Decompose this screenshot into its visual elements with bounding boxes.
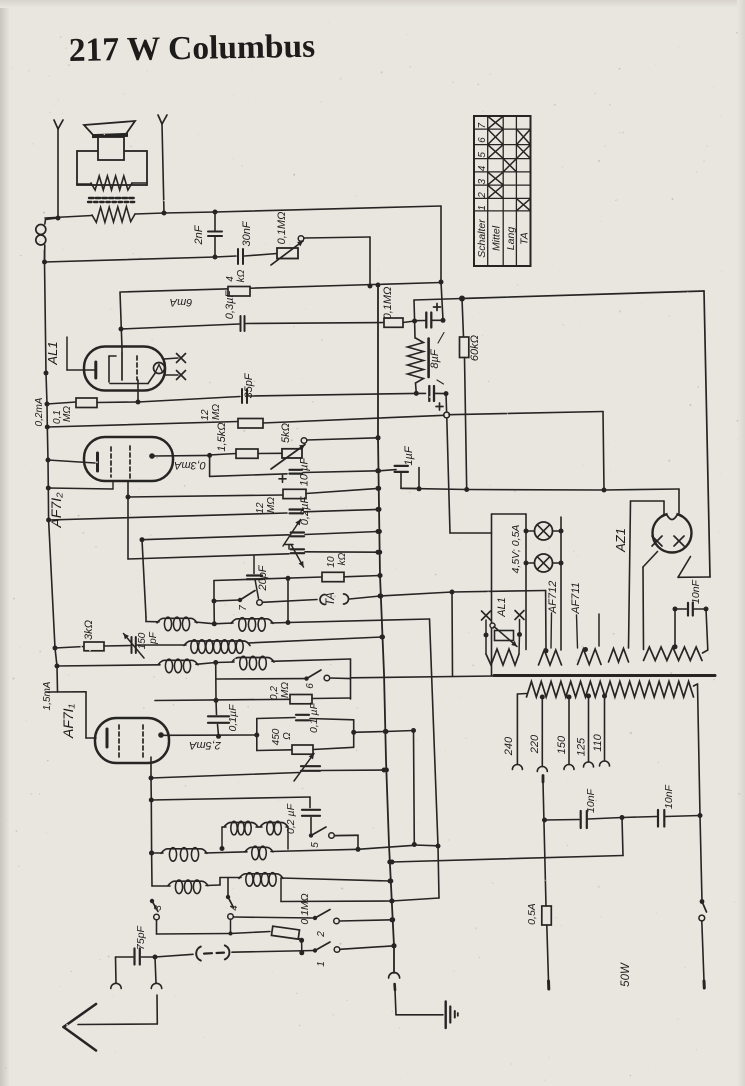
AF7I1 grid1 (dashed) [118,725,120,757]
10k value label [326,552,348,567]
wire W5 [128,495,283,497]
wire heater row y490 [401,487,607,493]
svg-text:AL1: AL1 [45,341,60,365]
wire W2 12M line [47,422,238,428]
svg-text:10nF: 10nF [690,579,702,604]
speaker terminal right (fork) [158,115,167,216]
capacitor 0.2uF [290,507,381,513]
AL1 tube label [45,337,67,370]
ground wire [396,1014,443,1016]
0.1M decoupling label [382,287,394,320]
transformer core (dashed) [88,198,136,202]
svg-text:6: 6 [305,683,316,689]
0.3uF value label [224,290,236,320]
svg-text:4: 4 [477,165,488,171]
switch 5 [309,827,358,838]
svg-text:4: 4 [225,276,236,282]
svg-text:12: 12 [255,502,266,514]
150pF value label [137,631,159,649]
AL1 anode [121,347,123,381]
svg-text:MΩ: MΩ [266,497,277,513]
capacitor 0.1uF (grid) [208,716,229,739]
heater winding z5 [644,647,703,661]
svg-text:2nF: 2nF [193,224,205,245]
wire W7 [140,535,290,542]
wire W-666 [57,665,160,666]
svg-text:0,3µF: 0,3µF [224,290,236,320]
trimmer 150pF [124,634,187,659]
svg-text:8µF: 8µF [429,348,441,368]
svg-text:50W: 50W [620,962,632,987]
svg-text:125: 125 [576,737,588,756]
svg-text:1: 1 [316,961,327,967]
wire sw4 to sw2 [233,917,314,918]
AL1 heater rheostat [482,611,525,655]
wire row y850 [149,846,224,856]
switch 3 label [153,905,164,911]
tap 240 [503,694,522,770]
power rating label [620,962,632,987]
wire anode drop to W4 [209,455,211,476]
svg-text:0,1 µF: 0,1 µF [308,702,320,733]
AF7I1 cathode [106,729,109,747]
tap 125 [576,694,594,768]
AZ1 anode 2 [674,536,684,546]
AF7I1 tube label [60,703,76,739]
lamp left rail [524,514,529,650]
coil D [216,656,351,670]
AF7I1 anode [158,732,259,738]
antenna lead [78,995,157,1025]
svg-text:1,5mA: 1,5mA [42,681,53,710]
capacitor 30nF [238,249,277,264]
wire switch7 to TA [262,600,317,603]
AL1 heater leads [164,354,186,380]
svg-text:0,5A: 0,5A [526,903,538,925]
resistor 12M (AF7I2 grid) [283,486,381,499]
12M grid label [255,497,277,514]
svg-text:TA: TA [325,592,337,606]
svg-text:0,2: 0,2 [269,686,280,700]
svg-text:10: 10 [326,556,337,568]
0.1M AL1 label [52,406,73,424]
coil C [158,659,218,673]
svg-text:150: 150 [137,632,148,649]
heater winding AL1 section [486,649,519,665]
capacitor 0.3uF [241,316,385,331]
bleeder zigzag [408,321,424,393]
left supply rail [44,250,60,692]
svg-text:240: 240 [503,736,515,756]
AF7I1 grid2 (dashed) [142,725,144,757]
AZ1 filament lead left [629,501,665,648]
electrolytic 8uF (second) [429,386,448,401]
switch 2 [313,910,395,924]
svg-text:450: 450 [271,728,282,745]
speaker neck [98,137,124,160]
switch 4 label [229,905,240,911]
resistor 0.1M (antenna) [231,926,305,955]
2.5mA current label [189,739,222,751]
svg-text:7: 7 [238,605,249,611]
svg-text:0,1MΩ: 0,1MΩ [382,287,394,320]
wire W4 [210,474,287,477]
antenna jack right [151,957,161,989]
svg-text:AF7I₂: AF7I₂ [48,492,64,529]
wave-band switch table [474,116,531,266]
voice coil / secondary zigzag [45,207,164,223]
electrolytic 10uF [290,470,378,474]
AF7I2 anode [149,453,212,459]
svg-text:150: 150 [556,735,568,754]
TA label [325,592,337,606]
grid cap riser [214,663,219,715]
dial lamp 2 [526,554,561,572]
resistor 0.1M (AL1 grid) [76,397,240,408]
electrolytic 8uF long plate [427,339,430,378]
4k value label [225,269,247,282]
trimmer capacitor 1 [283,520,381,547]
wire anode row to bus [354,728,416,734]
wire W3 [210,454,236,456]
0.2uF switch5 label [285,803,297,834]
switch 6 [216,670,351,681]
wire W9 10k line [214,576,322,581]
switch 6 label [305,683,316,689]
switch 7 label [238,605,249,611]
5k value label [280,423,292,443]
AL1 heater circle [154,363,165,374]
coil A [146,617,214,631]
capacitor 10nF (mains right) [622,810,700,827]
svg-text:6mA: 6mA [170,296,193,308]
fuse 0.5A [542,906,552,989]
capacitor 1uF (bus) [375,466,421,491]
wire TA row to heater [380,590,546,650]
svg-text:MΩ: MΩ [62,406,73,422]
wire riser x414 [412,731,417,848]
wire to B+ node [414,296,465,322]
10nF (AZ1 filter) [673,603,709,653]
AL1 cathode [67,362,96,378]
switch5 drop [357,835,359,849]
field coil (zigzag in housing) [77,176,147,190]
switch 3 [150,899,231,934]
svg-text:TA: TA [518,232,530,245]
35pF value label [243,372,255,398]
svg-text:2: 2 [316,931,327,938]
coil H drop [280,878,282,902]
resistor 3k [55,642,130,651]
10nF mains left label [585,788,597,813]
resistor 4k [228,287,250,297]
svg-text:0,3mA: 0,3mA [174,459,206,471]
tube AZ1 envelope [653,508,692,552]
trimmer capacitor 3 [294,754,387,782]
wire W1 0.2mA line [47,402,76,404]
capacitor 10nF (mains left) [545,811,623,828]
potentiometer 0.1M (volume) [271,236,304,265]
transformer core bar [494,674,715,677]
wire B+ rail to rectifier [462,291,710,577]
heater winding z4 [609,649,629,663]
svg-text:pF: pF [148,631,159,645]
svg-text:12: 12 [200,409,211,421]
tap 110 [592,694,610,767]
svg-text:4: 4 [229,905,240,911]
AL1 heater label [496,597,508,618]
svg-text:AZ1: AZ1 [613,528,628,553]
capacitor 0.2uF (switch5) [302,810,320,833]
central ground bus [376,283,397,974]
mains switch [699,899,707,988]
10nF mains right label [663,784,675,809]
switch 4 [226,878,234,936]
svg-text:30nF: 30nF [241,220,253,246]
ground symbol [446,1002,458,1029]
TA terminals [320,594,383,605]
svg-text:0,2 µF: 0,2 µF [285,803,297,834]
long oscillator coil [184,635,385,654]
heater winding z2 [539,648,562,665]
wire V430 riser [430,619,441,898]
svg-text:AF712: AF712 [547,581,559,614]
0.2mA current label [34,397,45,426]
tap 150 [556,695,574,770]
block left rail [256,719,258,751]
svg-text:60kΩ: 60kΩ [469,335,481,361]
wire W-798 [151,797,310,808]
potentiometer 5k [271,438,307,469]
coil A feed [142,540,146,622]
resistor 12M (AL1) [238,412,604,491]
resistor 450 [257,745,354,754]
antenna jack left [111,983,121,988]
resistor 0.1M (decoupling) [384,318,417,327]
tap 220 [529,695,547,907]
svg-text:MΩ: MΩ [280,682,291,698]
AF7I2 grid 1 (dashed) [110,447,112,477]
capacitor 20pF [247,556,262,599]
AF7I1 cathode path [46,692,96,738]
capacitor 2nF [208,212,222,257]
antenna coil at left edge [36,218,58,262]
tube AF7I2 envelope [84,437,173,481]
plus sign (first 8uF) [434,304,441,311]
AL1 suppressor (dashed) [137,356,138,402]
12M AL1 label [200,404,222,421]
speaker terminal left (fork) [54,120,63,221]
svg-text:7: 7 [477,123,488,129]
wire (wire-2 from antenna coil) [42,256,236,265]
svg-text:3: 3 [477,178,488,184]
10nF AZ1 label [690,579,702,604]
svg-text:2: 2 [477,192,488,199]
output transformer housing [77,151,147,185]
coil row y826 [222,821,288,849]
resistor 0.2M [155,695,351,704]
title text [68,28,315,69]
svg-text:10nF: 10nF [663,784,675,809]
svg-text:4,5V; 0,5A: 4,5V; 0,5A [510,525,522,574]
svg-text:0,1µF: 0,1µF [227,704,239,732]
primary right lead [698,684,703,902]
svg-text:kΩ: kΩ [337,552,348,565]
svg-text:5kΩ: 5kΩ [280,423,292,443]
svg-text:2,5mA: 2,5mA [189,739,222,751]
capacitor 35pF [242,389,416,403]
wire W-777 AVC [151,773,299,779]
coil E [161,848,247,862]
fuse label [526,903,538,925]
svg-text:1,5kΩ: 1,5kΩ [216,422,228,451]
wire (main top wire-1 to the right) [164,206,441,215]
lamp feed rail [492,514,527,676]
svg-text:0,1MΩ: 0,1MΩ [276,212,288,245]
1.5k value label [216,422,228,451]
svg-text:Mittel: Mittel [490,225,502,251]
AZ1 tube label [613,528,628,553]
coil D corner down [350,659,352,699]
svg-text:Ω: Ω [282,732,293,740]
AZ1 filament lead right [604,489,679,513]
antenna plug symbols [196,945,315,960]
heater stub [598,614,600,646]
AF7I2 grid 2 (dashed) [48,446,130,489]
0.1M antenna label [299,893,311,924]
10uF value label [299,457,311,487]
coil H [239,873,393,887]
0.2M value label [269,682,291,700]
switch 5 label [310,842,321,848]
0.1uF anode label [308,702,320,733]
svg-text:AF7I₁: AF7I₁ [60,703,76,739]
switch 1 [313,942,397,953]
8uF value label [429,333,444,385]
AF7I2 tube label [48,492,64,529]
wire row y899 [281,898,439,904]
sloped wire bus to 10nF node [390,815,625,865]
AZ1 heater drop [643,552,658,650]
coil B [214,618,429,632]
wire pot to grid line [304,237,373,289]
antenna arrow symbol [64,1004,97,1051]
coil G [152,878,241,894]
wire (wire-1 right vertical) [439,206,444,320]
AF7I2 grid riser 1 [126,481,131,559]
resistor 1.5k [236,449,282,458]
svg-text:AL1: AL1 [496,597,508,618]
svg-text:0,2mA: 0,2mA [34,397,45,426]
electrolytic 8uF (first) [415,313,446,328]
wire 6mA anode feed [121,283,441,293]
svg-text:20pF: 20pF [257,564,269,591]
plus sign (second 8uF) [436,403,443,410]
AZ1 cathode lead [678,557,710,578]
0.1uF grid label [227,704,239,732]
AF7I1 grid lead down [149,757,155,886]
primary winding sawtooth [517,682,697,698]
wire antenna row [153,954,194,959]
bus chassis connector [389,973,400,1015]
wire grid-line to lamps [450,532,492,534]
AF712 heater label [547,581,559,648]
wire 5k to bus [307,435,381,440]
svg-text:5: 5 [477,152,488,158]
svg-text:3kΩ: 3kΩ [83,620,95,640]
0.3mA current label [174,459,206,471]
wire W6 [49,513,287,520]
svg-text:6: 6 [477,137,488,143]
capacitor 0.1uF (anode) [257,715,354,721]
svg-text:3: 3 [153,905,164,911]
svg-text:Lang: Lang [505,227,517,251]
plus sign 10uF [279,475,286,482]
heater U frame [451,592,454,676]
switch 1 label [316,961,327,967]
0.2uF value label [299,496,311,526]
resistor 10k [322,572,383,581]
block right rail [351,720,356,748]
svg-text:1: 1 [477,205,488,211]
1uF value label [403,445,415,465]
3k value label [83,620,95,640]
svg-text:kΩ: kΩ [236,269,247,282]
wire 0.3uF screen line [121,324,239,329]
grid coil riser [212,581,217,627]
60k value label [469,335,481,361]
coil B riser to W9 [287,578,289,622]
tube AL1 envelope [84,347,165,391]
svg-text:5: 5 [310,842,321,848]
AL1 grid [109,356,156,384]
wire W8 [128,554,289,559]
svg-text:0,1MΩ: 0,1MΩ [299,893,311,924]
AF7I2 cathode [48,453,98,471]
dial lamp 1 [526,522,561,540]
svg-text:1µF: 1µF [403,445,415,465]
wire junction drop [444,394,450,533]
lamp right rail [559,517,564,650]
AL1 anode riser [119,292,124,348]
switch 7 [214,591,262,606]
svg-text:220: 220 [529,734,541,754]
6mA current label [170,296,193,308]
450 value label [271,728,293,745]
resistor 60k [460,299,469,490]
heater winding z3 [578,647,602,665]
node wire-2 junction [213,255,218,260]
75pF value label [135,925,147,950]
2nF value label [193,224,205,245]
svg-text:35pF: 35pF [243,372,255,398]
svg-text:217 W Columbus: 217 W Columbus [68,28,315,69]
svg-text:110: 110 [592,733,604,751]
wire switch6 row to heater frame [351,676,495,678]
wire (8uF bottom / W1 right) [414,391,426,396]
svg-text:10 µF: 10 µF [299,457,311,487]
30nF value label [241,220,253,246]
svg-text:75pF: 75pF [135,925,147,950]
svg-text:AF711: AF711 [570,582,582,615]
1.5mA current label [42,681,53,710]
loudspeaker cone [84,121,135,138]
lamp rating label [510,525,522,574]
svg-text:0,2µF: 0,2µF [299,496,311,526]
20pF value label [257,564,269,591]
svg-text:MΩ: MΩ [211,404,222,420]
AF711 heater label [570,582,582,648]
